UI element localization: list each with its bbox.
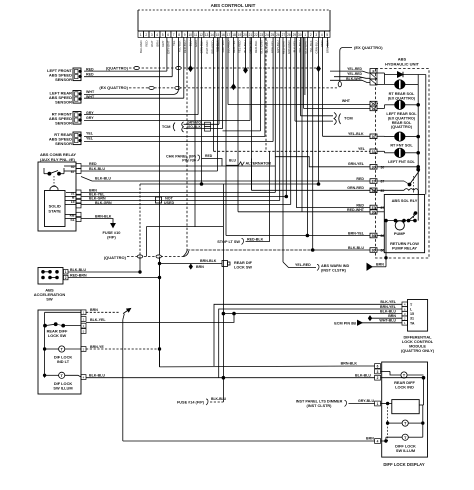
display pin 1 [375,401,381,406]
display pin 2 [375,375,381,380]
solenoid RT REAR SOL [377,83,395,85]
svg-text:BRN: BRN [366,436,374,440]
svg-text:1: 1 [377,402,379,406]
svg-text:RED: RED [205,154,213,158]
wire dashed vertical 266 [265,38,267,151]
svg-text:BLK-BLU: BLK-BLU [348,246,364,250]
svg-text:RED: RED [89,162,97,166]
svg-text:30: 30 [372,210,376,214]
junction marker q3 [232,84,236,89]
wire LR sensor 2 [84,97,184,99]
svg-text:25: 25 [271,33,275,37]
wire WHT conn 2 [304,107,371,109]
wire LF sensor 2 [84,76,172,78]
wire TCM1 VIO-BLK [184,128,223,130]
svg-text:ECM PIN 8B: ECM PIN 8B [334,321,356,325]
svg-text:GRN-YEL: GRN-YEL [348,162,365,166]
svg-text:26: 26 [276,33,280,37]
display dashed drop [387,404,389,442]
svg-text:3: 3 [315,33,317,37]
svg-text:RED-BLK: RED-BLK [254,40,258,53]
wire BLK-WHT hydraulic [330,80,370,82]
wire QUATTRO dashed [129,67,319,69]
fuse F10 [111,224,115,228]
rear diff lock sw pin 2 [81,317,86,322]
svg-text:BLK-YEL: BLK-YEL [90,318,106,322]
module pin TA [402,321,408,326]
wire LR sensor 1 [84,37,179,94]
svg-text:(QUATTRO): (QUATTRO) [106,65,129,70]
svg-text:BLK-BLU: BLK-BLU [95,177,111,181]
hydraulic connector 32 [370,149,377,154]
svg-text:86: 86 [372,249,376,253]
svg-text:WHT-BLU: WHT-BLU [379,319,396,323]
svg-text:1: 1 [304,33,306,37]
wire BRN-BLK display [160,365,375,368]
vertical wire 223 [222,184,224,402]
display pin 6 [375,364,381,369]
wire 190 to pin85 [252,189,371,191]
svg-text:DIFF LOCK DISPLAY: DIFF LOCK DISPLAY [383,462,424,467]
junction marker q1 [189,66,193,71]
svg-text:BLK-BLU: BLK-BLU [211,397,227,401]
hydraulic connector 86a [370,233,377,238]
svg-text:20: 20 [243,33,247,37]
svg-text:(EX QUATTRO): (EX QUATTRO) [388,116,416,120]
svg-text:6: 6 [377,365,379,369]
svg-text:ALTERNATOR: ALTERNATOR [246,162,272,166]
wire WHT conn 1 [228,104,370,106]
svg-text:BLK-YEL: BLK-YEL [380,300,396,304]
svg-text:WHT: WHT [150,40,154,47]
svg-text:2: 2 [65,276,67,280]
unit DIFF LOCK DISPLAY [382,362,428,457]
svg-text:7: 7 [173,33,175,37]
svg-text:GRN-BLU: GRN-BLU [314,41,318,54]
relay pin S1 [76,217,81,222]
bus right vertical [417,75,419,221]
diode [377,72,385,74]
svg-text:30: 30 [372,135,376,139]
relay switch contacts [48,172,51,175]
svg-text:VIO-BLK: VIO-BLK [187,125,201,129]
solenoid LEFT FNT SOL [377,150,385,152]
svg-text:(F/P): (F/P) [107,234,116,239]
svg-text:SENSOR: SENSOR [55,121,72,126]
svg-text:WHT: WHT [342,99,351,103]
svg-text:BRN-BLK: BRN-BLK [200,259,217,263]
wire BRN module [368,316,371,320]
svg-text:BRN-YEL: BRN-YEL [271,40,275,53]
junction marker q2 [317,66,321,71]
svg-text:LOCK SW: LOCK SW [48,333,67,338]
svg-text:SENSOR: SENSOR [55,77,72,82]
solenoid LEFT REAR SOL [377,103,378,105]
svg-text:(INST CLSTR): (INST CLSTR) [307,404,333,408]
svg-text:BRN: BRN [388,314,396,318]
svg-text:BRN-BLK: BRN-BLK [95,214,112,218]
svg-text:ABS WARN IND: ABS WARN IND [321,264,350,268]
svg-text:INST PANEL LTS DIMMER: INST PANEL LTS DIMMER [296,399,343,403]
relay pin 15 [76,199,81,204]
lamp display mid [402,420,408,426]
svg-text:1: 1 [65,270,67,274]
lamp DIF LOCK IND LT [59,346,65,352]
svg-text:PIN #30: PIN #30 [182,159,196,163]
relay pin 87 [76,169,81,174]
svg-text:21: 21 [249,33,253,37]
svg-text:86: 86 [372,234,376,238]
wire EX QUATTRO right [340,48,352,83]
junction oval 3 [149,86,154,89]
svg-text:BLK-BLU: BLK-BLU [89,167,105,171]
lamp DIF LOCK SW ILLUM [59,372,65,378]
wire mid 130 [223,130,261,132]
lamp REAR DIFF LOCK IND [401,372,407,378]
hydraulic connector 1G [370,101,377,106]
solid state module [45,191,66,227]
junction oval 6 [156,255,161,258]
svg-text:YEL-RED: YEL-RED [347,72,362,76]
vertical wires from ABS control unit pins [159,37,161,367]
svg-text:30: 30 [298,33,302,37]
svg-text:11: 11 [194,33,198,37]
module pin T [402,302,408,307]
svg-text:GRY-BLU: GRY-BLU [358,399,374,403]
module DIFFERENTIAL LOCK CONTROL MODULE [408,300,428,332]
svg-text:SW ILLUM: SW ILLUM [53,386,72,391]
svg-text:YEL-RED: YEL-RED [295,263,311,267]
svg-text:8: 8 [178,33,180,37]
wire top feed [45,311,81,313]
wire RR sensor 1 [84,136,265,138]
svg-text:YEL: YEL [358,147,366,151]
wire 211 to pin30 [238,211,370,213]
svg-text:GRY: GRY [86,116,94,120]
accel sw pin 1 [64,270,69,275]
svg-text:2: 2 [377,376,379,380]
svg-text:BRN-YEL: BRN-YEL [380,305,397,309]
svg-text:14: 14 [210,33,214,37]
svg-text:(QUATTRO ONLY): (QUATTRO ONLY) [401,348,435,353]
svg-text:87: 87 [381,180,385,184]
svg-text:87: 87 [372,180,376,184]
svg-text:23: 23 [260,33,264,37]
svg-text:1: 1 [140,33,142,37]
wire BRN branch marker [189,264,192,268]
svg-text:TCM: TCM [344,116,353,121]
hydraulic connector 18 [370,106,377,111]
svg-text:YEL: YEL [86,131,94,135]
svg-text:BLK-YEL: BLK-YEL [293,40,297,52]
svg-text:5: 5 [162,33,164,37]
junction 184 [200,183,203,186]
junction oval 3b [175,86,180,89]
svg-text:GRN: GRN [194,41,198,47]
svg-text:(EX QUATTRO): (EX QUATTRO) [354,45,383,50]
svg-text:IND LT: IND LT [57,359,70,364]
svg-text:SW: SW [46,297,53,302]
svg-text:BRN: BRN [376,262,384,266]
svg-text:RED: RED [356,203,364,207]
relay pin B [76,194,81,199]
solenoid RT FNT SOL [377,135,385,137]
wire mid 157 jog [275,157,370,167]
svg-text:15: 15 [410,312,414,316]
svg-text:6: 6 [167,33,169,37]
display inner module box [392,400,419,414]
connector REAR DIF LOCK SW [222,261,228,267]
svg-text:(EX QUATTRO): (EX QUATTRO) [99,85,128,90]
return flow pump relay box [384,195,424,253]
hydraulic connector 86b [370,248,377,253]
svg-text:PUMP: PUMP [394,231,406,236]
wire right inner vertical [425,75,427,195]
svg-text:TA: TA [410,321,415,325]
hydraulic connector 87b [370,205,377,210]
svg-text:BRN: BRN [90,308,98,312]
svg-text:YEL-BLK: YEL-BLK [348,132,364,136]
svg-text:31: 31 [410,317,414,321]
wire 187-curve vertical [188,251,190,252]
svg-text:BLU-RED: BLU-RED [227,41,231,54]
svg-text:9: 9 [184,33,186,37]
svg-text:RED: RED [144,41,148,47]
svg-text:2: 2 [310,33,312,37]
node ABS WARN IND [317,265,319,271]
relay pin 30 [76,164,81,169]
svg-text:2: 2 [145,33,147,37]
svg-text:REAR DIF: REAR DIF [234,261,253,265]
svg-text:15: 15 [216,33,220,37]
svg-text:27: 27 [282,33,286,37]
svg-text:RED-BLK: RED-BLK [247,237,264,241]
svg-text:GRY: GRY [161,40,165,46]
wire mid vertical 140 dashed [139,184,141,257]
svg-text:(AUX RLY PNL #E): (AUX RLY PNL #E) [40,157,75,162]
pump motor [377,207,384,209]
svg-text:85: 85 [381,189,385,193]
svg-text:LOCK IND: LOCK IND [395,384,414,389]
wire YEL-RED hydraulic 2 [334,77,370,79]
module pin 31 [402,316,408,321]
svg-text:YEL-RED: YEL-RED [347,67,362,71]
svg-text:SENSOR: SENSOR [55,141,72,146]
junction oval 1 [134,66,139,69]
wire 250 bus left [187,249,313,251]
module pin L [402,307,408,312]
svg-text:LEFT REAR SOL: LEFT REAR SOL [386,112,417,116]
ABS control unit connector pin row [138,31,143,37]
vertical wire 122 [122,320,124,441]
svg-text:RT REAR SOL: RT REAR SOL [389,92,415,96]
svg-text:ABS CONTROL UNIT: ABS CONTROL UNIT [211,3,256,8]
svg-text:30: 30 [372,165,376,169]
svg-text:4: 4 [156,33,158,37]
svg-text:BRN: BRN [196,265,204,269]
svg-text:FUSE #14 (F/P): FUSE #14 (F/P) [177,400,205,404]
svg-text:ABS SOL RLY: ABS SOL RLY [392,198,418,203]
svg-text:(QUATTRO): (QUATTRO) [391,125,413,129]
svg-text:SENSOR: SENSOR [55,100,72,105]
wire drop 146 [146,227,148,257]
svg-text:WHT-RED: WHT-RED [205,41,209,55]
svg-text:29: 29 [293,33,297,37]
svg-text:BLK-RED: BLK-RED [139,41,143,54]
relay ABS SOL RLY contacts [377,166,418,168]
svg-text:30: 30 [381,165,385,169]
wire TCM1 GRY-VIO [184,123,220,125]
wire 86 coil [377,235,384,237]
svg-text:STATE: STATE [48,208,61,213]
svg-text:(EX QUATTRO): (EX QUATTRO) [388,96,416,100]
svg-text:YEL-BLU: YEL-BLU [298,41,302,53]
svg-text:19: 19 [238,33,242,37]
svg-text:STOP LT SW: STOP LT SW [217,240,240,244]
ground BRN [372,266,386,268]
wire RF sensor 1 [84,114,198,116]
wire RR sensor 2 [84,141,273,143]
junction oval 5 [137,255,142,258]
junction marker q4 [244,68,248,73]
svg-text:BLK-BLU: BLK-BLU [89,374,105,378]
junction 184b [317,183,320,186]
wire TCM2 lower [295,120,333,122]
svg-text:86: 86 [381,249,385,253]
wire LF sensor 1 [84,70,167,72]
svg-text:BLK-WHT: BLK-WHT [346,77,363,81]
svg-text:3: 3 [377,370,379,374]
svg-text:87: 87 [381,206,385,210]
wire pin4 to lamps [381,440,386,442]
wire quattro drop 140 [139,257,141,273]
svg-text:22: 22 [254,33,258,37]
svg-text:10: 10 [188,33,192,37]
svg-text:SW ILLUM: SW ILLUM [396,448,415,453]
wire pump ground [385,221,387,267]
wire quattro riser 187 [186,37,188,68]
switch REAR DIFF LOCK SW unit [38,310,81,394]
svg-text:32: 32 [372,150,376,154]
svg-text:TCM: TCM [162,124,171,129]
relay pin 31 [76,190,81,195]
wire mid 184 [140,183,319,185]
svg-text:YEL: YEL [86,137,94,141]
svg-text:24: 24 [265,33,269,37]
wire 187 vertical tail [183,251,187,257]
svg-text:LOCK SW: LOCK SW [234,265,252,269]
svg-text:PUMP RELAY: PUMP RELAY [392,246,417,251]
rear diff lock sw pin 5 [81,329,86,334]
junction oval 4 [338,82,341,87]
wire EX QUATTRO dashed [129,87,337,89]
vertical wire 159 [159,257,161,367]
svg-text:BRN-BLK: BRN-BLK [341,362,358,366]
svg-text:(INST CLSTR): (INST CLSTR) [321,268,347,272]
svg-text:BLK-BLU: BLK-BLU [380,310,396,314]
rear diff lock sw pin 1 [81,310,86,315]
inline connector TCM1 [205,122,211,127]
wire YEL-RED to warn lamp [283,262,316,268]
svg-text:REAR SOL: REAR SOL [392,121,412,125]
svg-text:BLK-BLU: BLK-BLU [355,373,371,377]
hydraulic connector pin F [370,69,377,73]
wire QUATTRO dashed lower [127,256,184,258]
svg-text:RED: RED [86,73,94,77]
wire 235 to pin86 [226,235,370,237]
wire 207 to pin87 [297,206,371,208]
svg-text:GRN-YEL: GRN-YEL [249,40,253,53]
svg-text:GRY-VIO: GRY-VIO [221,40,225,53]
module pin 15 [402,311,408,316]
svg-text:USED: USED [164,201,175,205]
hydraulic connector pin F2 [370,73,377,79]
svg-text:BRN-YE: BRN-YE [90,345,104,349]
hydraulic connector 30a [370,134,377,139]
svg-text:BLU: BLU [229,158,237,162]
wire CHK PANEL branch [202,159,223,167]
wire rear dif lock sw feed [160,263,223,265]
svg-text:4: 4 [377,440,379,444]
wire YEL-RED hydraulic 1 [330,71,370,73]
bus BLK-BLU [223,313,402,315]
relay ABS SOL RLY coil [377,189,404,191]
svg-text:BRN: BRN [155,41,159,47]
svg-text:YEL-BLK: YEL-BLK [177,40,181,52]
display pin 3 [375,369,381,374]
wire stop lt sw [246,151,270,241]
relay pin S [76,203,81,208]
rear diff lock sw pin 2 [81,347,86,352]
junction oval 2 [176,66,181,69]
relay pin KB [76,212,81,217]
svg-text:RED-WHT: RED-WHT [347,208,365,212]
wire 227 branch [147,226,224,228]
svg-text:4: 4 [321,33,323,37]
junction 223-377 [222,376,225,379]
hydraulic connector 87a [370,179,377,184]
svg-text:18: 18 [232,33,236,37]
svg-text:13: 13 [205,33,209,37]
bus BLK-YEL [214,304,402,366]
svg-text:RT FNT SOL: RT FNT SOL [390,144,413,148]
hydraulic connector pin F3 [370,79,377,85]
svg-text:RED: RED [356,177,364,181]
hydraulic connector 30b [370,165,377,170]
relay coil arc [50,186,58,189]
accel sw pin 2 [64,275,69,280]
node TCM right [334,113,336,125]
svg-text:BRN-YEL: BRN-YEL [348,231,365,235]
svg-text:BLU-WHT: BLU-WHT [304,40,308,53]
switch ABS ACCELERATION SW [38,268,63,285]
pump relay contacts [409,214,417,221]
hydraulic connector 85 [370,188,377,193]
display pin 4 [375,439,381,444]
svg-text:28: 28 [287,33,291,37]
svg-text:RED-YEL: RED-YEL [232,40,236,53]
rear diff lock sw pin 4 [81,375,86,380]
svg-text:CHK PANEL (I/P): CHK PANEL (I/P) [166,154,197,158]
svg-text:5: 5 [326,33,328,37]
hydraulic connector 30c [370,210,377,215]
svg-text:WHT: WHT [86,90,95,94]
svg-text:16: 16 [221,33,225,37]
svg-text:RED-BRN: RED-BRN [70,274,87,278]
lamp display bottom [402,434,408,440]
svg-text:GRN-RED: GRN-RED [347,186,364,190]
svg-text:HYDRAULIC UNIT: HYDRAULIC UNIT [385,61,420,66]
